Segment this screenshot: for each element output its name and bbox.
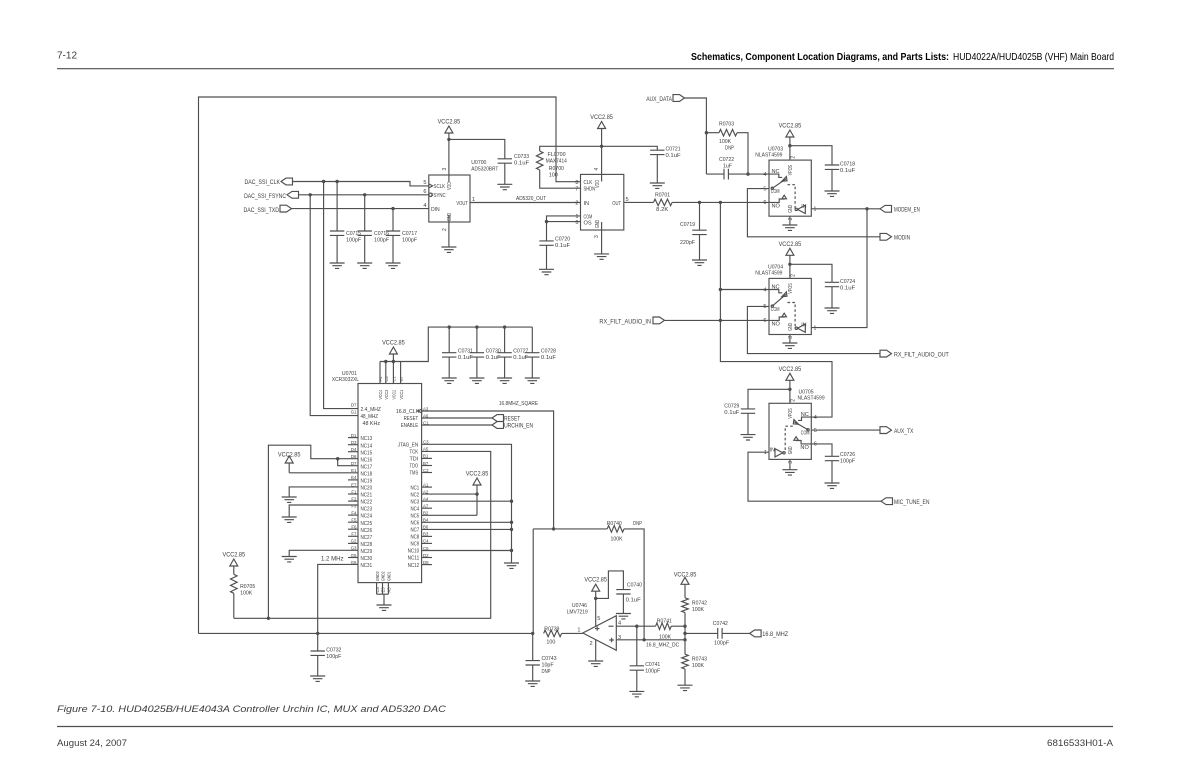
svg-text:GND: GND [447,213,453,221]
port MODIN [880,233,910,241]
port 16.8_MHZ [750,630,789,638]
svg-text:GND: GND [595,220,601,228]
svg-text:Schematics, Component Location: Schematics, Component Location Diagrams,… [691,52,1114,63]
svg-text:VCC3: VCC3 [384,390,389,400]
svg-text:3: 3 [788,336,794,339]
svg-text:100K: 100K [611,537,623,543]
svg-text:7: 7 [575,186,578,192]
svg-text:VCC1: VCC1 [399,390,404,400]
svg-text:NC16: NC16 [361,457,373,463]
svg-text:C0743: C0743 [542,656,557,662]
svg-text:1: 1 [814,207,817,213]
svg-text:0.1uF: 0.1uF [541,355,557,361]
resistor R0743 100K pulldown [682,654,707,685]
svg-text:U0700: U0700 [471,160,486,166]
power VCC2.85 NC2/NC5 [422,471,489,516]
svg-text:100K: 100K [692,663,704,669]
wire U0703 COM to MODIN [747,189,880,237]
wire DAC_SSI_CLK to U0701 2.4_MHZ pin [324,182,358,409]
svg-text:NC24: NC24 [361,514,373,520]
ground C0732 [310,676,325,681]
svg-text:C0722: C0722 [719,157,734,163]
svg-text:NC18: NC18 [361,472,373,478]
wire DAC_SSI_CLK to U0700 SCLK [293,180,429,186]
svg-text:2: 2 [791,156,797,159]
svg-text:5: 5 [423,180,426,186]
wire audio bus to U0704/U0705 [719,202,832,417]
svg-text:NC31: NC31 [361,563,373,569]
svg-text:NC28: NC28 [361,542,373,548]
wire JTAG_EN ground bus [422,444,514,563]
svg-text:NLAST4599: NLAST4599 [755,152,782,158]
svg-text:FSYNC: FSYNC [431,193,446,199]
power VCC2.85 at FL0700 [590,114,613,182]
wire NC20 to ground [282,487,358,503]
svg-text:3: 3 [594,235,600,238]
svg-text:G1: G1 [351,409,357,414]
svg-text:C0740: C0740 [627,583,642,589]
svg-text:2.4_MHZ: 2.4_MHZ [361,407,382,413]
power VCC2.85 at U0703 [779,123,802,161]
ground C0718 [825,191,840,196]
svg-text:OUT: OUT [612,201,621,207]
svg-text:2: 2 [791,399,797,402]
wire NC31 1.2MHz to bottom rail [318,564,358,633]
svg-text:R0705: R0705 [240,584,255,590]
svg-text:16.8_MHZ: 16.8_MHZ [762,631,788,638]
svg-text:VCC2.85: VCC2.85 [590,114,613,121]
svg-text:0.1uF: 0.1uF [513,355,529,361]
svg-text:6816533H01-A: 6816533H01-A [1047,738,1114,748]
svg-text:VPOS: VPOS [788,283,794,294]
ground C0743 [525,681,540,686]
ground C0733 [497,184,512,189]
svg-text:F3: F3 [351,503,357,508]
svg-text:VCC2.85: VCC2.85 [584,577,607,584]
svg-text:10pF: 10pF [542,662,555,668]
svg-text:DAC_SSI_TXD: DAC_SSI_TXD [244,207,280,214]
svg-text:16.8_MHZ_DC: 16.8_MHZ_DC [646,643,679,649]
capacitor C0743 10pF DNP [526,633,557,681]
svg-text:MODEM_EN: MODEM_EN [894,207,920,214]
svg-text:100: 100 [549,172,558,178]
ground R0743 [678,685,693,690]
ground C0720 [539,269,554,274]
svg-text:U0746: U0746 [572,603,587,609]
capacitor C0722 1uF [706,157,769,180]
svg-text:8.2K: 8.2K [656,207,668,213]
svg-text:COM: COM [771,307,780,313]
svg-text:NC14: NC14 [361,443,373,449]
capacitor C0724 0.1uF [790,264,856,308]
svg-text:220pF: 220pF [680,240,696,246]
svg-text:6: 6 [814,442,817,448]
port URCHIN_EN [422,422,533,430]
svg-text:COM: COM [771,189,780,195]
ground FL0700 GND pin [594,222,609,259]
capacitor C0742 100pF output [683,621,749,646]
svg-text:5: 5 [763,186,766,192]
ground C0729 [741,435,756,440]
svg-text:VCC2.85: VCC2.85 [223,552,246,559]
svg-text:100pF: 100pF [402,238,418,244]
power VCC2.85 at U0704 [779,241,802,279]
svg-text:2: 2 [575,201,578,207]
net label 1.2 MHz [321,556,344,563]
svg-text:1: 1 [577,628,580,634]
resistor R0703 100K DNP [706,122,749,176]
svg-text:GND2: GND2 [381,571,386,581]
ground C0730 [469,378,484,383]
svg-text:NC21: NC21 [361,493,373,499]
svg-text:1.2 MHz: 1.2 MHz [321,556,344,563]
svg-text:AD5320_OUT: AD5320_OUT [516,196,547,202]
svg-text:C0720: C0720 [555,237,570,243]
svg-text:NC26: NC26 [361,528,373,534]
wire U0703 IN / MODEM_EN control [811,207,880,328]
svg-text:RX_FILT_AUDIO_OUT: RX_FILT_AUDIO_OUT [894,351,949,358]
svg-text:NC4: NC4 [411,506,420,512]
svg-text:IN: IN [801,204,806,210]
svg-text:C0716: C0716 [374,231,389,237]
svg-text:VCC2.85: VCC2.85 [779,241,802,248]
svg-text:D7: D7 [351,402,357,407]
svg-text:VOUT: VOUT [456,201,468,207]
svg-text:RX_FILT_AUDIO_IN: RX_FILT_AUDIO_IN [599,318,651,325]
svg-text:C0717: C0717 [402,231,417,237]
capacitor C0730 0.1uF [470,327,501,378]
svg-text:VPOS: VPOS [788,165,794,176]
DAC U0700 AD5320BRT body [423,160,498,231]
svg-text:JTAG_EN: JTAG_EN [398,443,418,449]
svg-text:0.1uF: 0.1uF [840,285,856,291]
svg-text:C0726: C0726 [840,452,855,458]
wire U0704 COM to RX_FILT_AUDIO_OUT [747,306,880,353]
svg-text:100pF: 100pF [645,669,661,675]
capacitor C0718 0.1uF [790,146,856,191]
ground JTAG bus [504,563,519,568]
ground C0724 [825,308,840,313]
svg-text:NC25: NC25 [361,521,373,527]
power VCC2.85 at U0701 top [380,325,532,363]
svg-text:URCHIN_EN: URCHIN_EN [504,423,533,430]
svg-text:VCC4: VCC4 [378,390,383,400]
ground U0703 GND pin [782,216,797,230]
ground U0746 pin 2 [588,640,603,666]
svg-text:AUX_TX: AUX_TX [894,428,913,435]
svg-text:DNP: DNP [542,669,551,675]
wire TCK to R0705 rail [234,451,491,620]
svg-text:1uF: 1uF [723,163,732,169]
svg-text:R0741: R0741 [657,619,672,625]
svg-text:48_MHZ: 48_MHZ [361,414,379,420]
svg-text:3: 3 [442,168,448,171]
svg-text:U0705: U0705 [799,390,814,396]
svg-text:COM: COM [801,431,810,437]
svg-text:NC11: NC11 [408,556,420,562]
capacitor C0728 0.1uF [525,327,556,378]
svg-text:C0724: C0724 [840,279,856,285]
svg-text:NC19: NC19 [361,479,373,485]
svg-text:IN: IN [584,201,590,207]
svg-text:0.1uF: 0.1uF [724,410,740,416]
svg-text:C0715: C0715 [346,231,361,237]
svg-text:VPOS: VPOS [788,408,794,419]
IC U0701 XCR3032XL body [332,362,432,595]
svg-text:LMV7219: LMV7219 [567,609,588,615]
ground C0715 [330,263,345,268]
svg-text:C0731: C0731 [458,348,473,354]
port RESET [422,415,521,423]
svg-text:0.1uF: 0.1uF [514,161,530,167]
svg-text:100: 100 [546,639,555,645]
ground U0701 GND pins [377,594,392,610]
svg-text:XCR3032XL: XCR3032XL [332,377,360,383]
analog switch U0704 NLAST4599 body [755,265,816,339]
svg-text:DNP: DNP [725,145,734,151]
svg-text:GND: GND [788,446,794,454]
ground C0721 [650,183,665,188]
svg-text:R0743: R0743 [692,657,707,663]
svg-text:0.1uF: 0.1uF [555,243,571,249]
svg-text:NC20: NC20 [361,486,373,492]
svg-text:8: 8 [575,180,578,186]
svg-text:NC1: NC1 [411,485,420,491]
ground C0719 [692,260,707,265]
capacitor C0715 100pF [330,182,362,264]
svg-text:4: 4 [618,621,621,627]
svg-text:4: 4 [423,203,426,209]
wire DAC_SSI_FSYNC to U0700 FSYNC [299,193,429,196]
port MIC_TUNE_EN [881,498,930,506]
svg-text:NC13: NC13 [361,436,373,442]
resistor R0739 100 [544,626,583,645]
wire U0705 IN to MIC_TUNE_EN [748,452,881,501]
power VCC2.85 at NC18 [278,452,358,473]
svg-text:1: 1 [814,326,817,332]
svg-text:TDO: TDO [410,464,419,470]
svg-text:NO: NO [772,322,781,328]
svg-text:DNP: DNP [633,521,642,527]
capacitor C0731 0.1uF [442,327,473,378]
svg-text:3: 3 [788,217,794,220]
svg-text:ENABLE: ENABLE [401,423,419,429]
wire U0701 16.8_CLK output [422,411,556,531]
svg-text:C0728: C0728 [541,348,556,354]
svg-text:C0732: C0732 [326,648,341,654]
svg-text:VCC2.85: VCC2.85 [779,123,802,130]
svg-text:48 KHz: 48 KHz [363,421,381,427]
svg-text:RESET: RESET [404,416,419,422]
svg-text:C0730: C0730 [486,348,501,354]
svg-text:SCLK: SCLK [434,184,446,190]
svg-text:100K: 100K [719,139,731,145]
port RX_FILT_AUDIO_IN [599,317,664,325]
svg-text:C0741: C0741 [645,662,660,668]
resistor R0705 100K [223,552,256,619]
ground C0717 [386,263,401,268]
wire 16.8MHz bottom rail [199,632,535,635]
port DAC_SSI_FSYNC [244,191,298,200]
capacitor C0719 220pF [680,202,707,260]
svg-text:NLAST4599: NLAST4599 [798,396,825,402]
header rule [57,68,1114,70]
svg-text:VCC2.85: VCC2.85 [382,340,405,347]
svg-text:FL0700: FL0700 [548,152,566,158]
svg-text:100pF: 100pF [346,238,362,244]
ground C0741 [629,691,644,696]
svg-text:NC17: NC17 [361,464,373,470]
svg-text:TMS: TMS [410,471,419,477]
svg-text:GND: GND [788,205,794,213]
ground U0700 GND pin [441,215,456,252]
power VCC2.85 at U0705 [779,366,802,404]
svg-text:2: 2 [589,641,592,647]
wire U0705 COM to AUX_TX [811,429,880,431]
svg-text:NC23: NC23 [361,507,373,513]
svg-text:4: 4 [763,172,766,178]
svg-text:5: 5 [597,616,600,622]
svg-text:R0700: R0700 [549,166,564,172]
svg-text:VDD: VDD [595,180,601,188]
svg-text:0.1uF: 0.1uF [840,168,856,174]
resistor R0701 8.2K [624,193,769,214]
svg-text:0.1uF: 0.1uF [458,355,474,361]
svg-text:C0729: C0729 [724,404,739,410]
svg-text:5: 5 [763,304,766,310]
svg-text:NC8: NC8 [411,535,420,541]
svg-text:0.1uF: 0.1uF [666,153,682,159]
ground C0726 [825,483,840,488]
svg-text:VCC2.85: VCC2.85 [438,119,461,126]
svg-text:6: 6 [423,189,426,195]
port AUX_TX [880,427,913,435]
svg-text:NC12: NC12 [408,563,420,569]
port DAC_SSI_CLK [245,178,293,186]
capacitor C0726 100pF [811,444,855,483]
ground C0728 [525,378,540,383]
svg-text:A5: A5 [387,587,392,593]
svg-text:C0742: C0742 [713,621,728,627]
capacitor C0717 100pF [386,209,418,263]
capacitor C0727 0.1uF [497,327,528,378]
resistor R0700 100 [536,146,601,188]
svg-text:VCC2.85: VCC2.85 [779,366,802,373]
resistor R0742 100K pullup [674,572,707,655]
svg-text:1: 1 [472,197,475,203]
svg-text:NC10: NC10 [408,549,420,555]
wire AD5320_OUT net [470,196,581,202]
svg-text:0.1uF: 0.1uF [486,355,502,361]
svg-text:VDD: VDD [447,182,453,190]
svg-text:R0740: R0740 [607,521,622,527]
svg-text:VCC2.85: VCC2.85 [674,572,697,579]
wire NC29 to ground [282,550,358,562]
svg-text:6: 6 [763,318,766,324]
ground U0705 GND pin [782,459,797,475]
svg-text:6: 6 [575,220,578,226]
wire 16.8MHz loop left/top (to FL0700 CLK) [199,97,581,633]
svg-text:100K: 100K [692,607,704,613]
svg-text:4: 4 [814,415,817,421]
svg-text:C0719: C0719 [680,222,695,228]
svg-text:VCC2.85: VCC2.85 [466,471,489,478]
svg-text:1: 1 [764,450,767,456]
svg-text:August 24, 2007: August 24, 2007 [57,738,127,748]
svg-text:C0727: C0727 [513,348,528,354]
svg-text:TDI: TDI [410,457,419,463]
svg-text:CLK: CLK [584,180,593,186]
port MODEM_EN [880,205,920,213]
svg-text:NC9: NC9 [411,542,420,548]
svg-text:4: 4 [763,287,766,293]
filter FL0700 MAX7414 body [546,152,629,238]
power VCC2.85 at U0700 [438,119,461,183]
svg-text:U0703: U0703 [768,146,783,152]
svg-text:R0742: R0742 [692,600,707,606]
ground C0716 [357,263,372,268]
svg-text:NO: NO [772,204,781,210]
net label 16.8MHZ_SQARE [499,401,538,407]
svg-text:MIC_TUNE_EN: MIC_TUNE_EN [894,499,930,506]
ground U0704 GND pin [782,335,797,349]
capacitor C0729 0.1uF [724,389,790,434]
wire RX_FILT_AUDIO_IN to U0704 NO [665,319,770,321]
svg-text:NC27: NC27 [361,535,373,541]
svg-text:NLAST4599: NLAST4599 [755,271,782,277]
capacitor C0721 0.1uF [602,146,681,183]
svg-text:NC3: NC3 [411,499,420,505]
svg-text:OS: OS [584,220,592,226]
svg-text:Figure 7-10. HUD4025B/HUE4043A: Figure 7-10. HUD4025B/HUE4043A Controlle… [57,704,446,715]
svg-text:16.8MHZ_SQARE: 16.8MHZ_SQARE [499,401,538,407]
svg-text:NC7: NC7 [411,528,420,534]
wire AUX_DATA down [685,98,709,174]
svg-text:IN: IN [801,323,806,329]
svg-text:6: 6 [763,200,766,206]
svg-text:NC30: NC30 [361,556,373,562]
ground C0731 [442,378,457,383]
power VCC2.85 at U0746 and C0740 0.1uF [584,571,642,626]
svg-text:100pF: 100pF [326,654,342,660]
ground C0727 [497,378,512,383]
capacitor C0741 100pF [630,626,661,691]
svg-text:AUX_DATA: AUX_DATA [646,96,673,103]
svg-text:16.8_CLK: 16.8_CLK [396,409,420,415]
svg-text:MODIN: MODIN [894,235,910,242]
svg-text:3: 3 [788,461,794,464]
capacitor C0720 0.1uF [539,216,580,269]
svg-text:4: 4 [594,168,600,171]
svg-text:R0701: R0701 [655,193,670,199]
svg-text:C5: C5 [375,586,380,592]
svg-text:IN: IN [770,447,775,453]
svg-text:VCC2.85: VCC2.85 [278,452,301,459]
svg-text:100K: 100K [240,590,252,596]
svg-text:GND1: GND1 [387,571,392,581]
svg-text:R0703: R0703 [719,122,734,128]
wire DAC_SSI_TXD to U0700 DIN [292,207,429,210]
svg-text:R0739: R0739 [544,626,559,632]
svg-text:0.1uF: 0.1uF [626,597,642,603]
op-amp U0746 LMV7219 [567,603,621,650]
capacitor C0716 100pF [358,195,390,263]
svg-text:NC5: NC5 [411,514,420,520]
svg-text:100pF: 100pF [840,459,856,465]
port AUX_DATA [646,95,684,103]
analog switch U0703 NLAST4599 body [755,146,816,220]
ground C0740 [616,614,631,619]
